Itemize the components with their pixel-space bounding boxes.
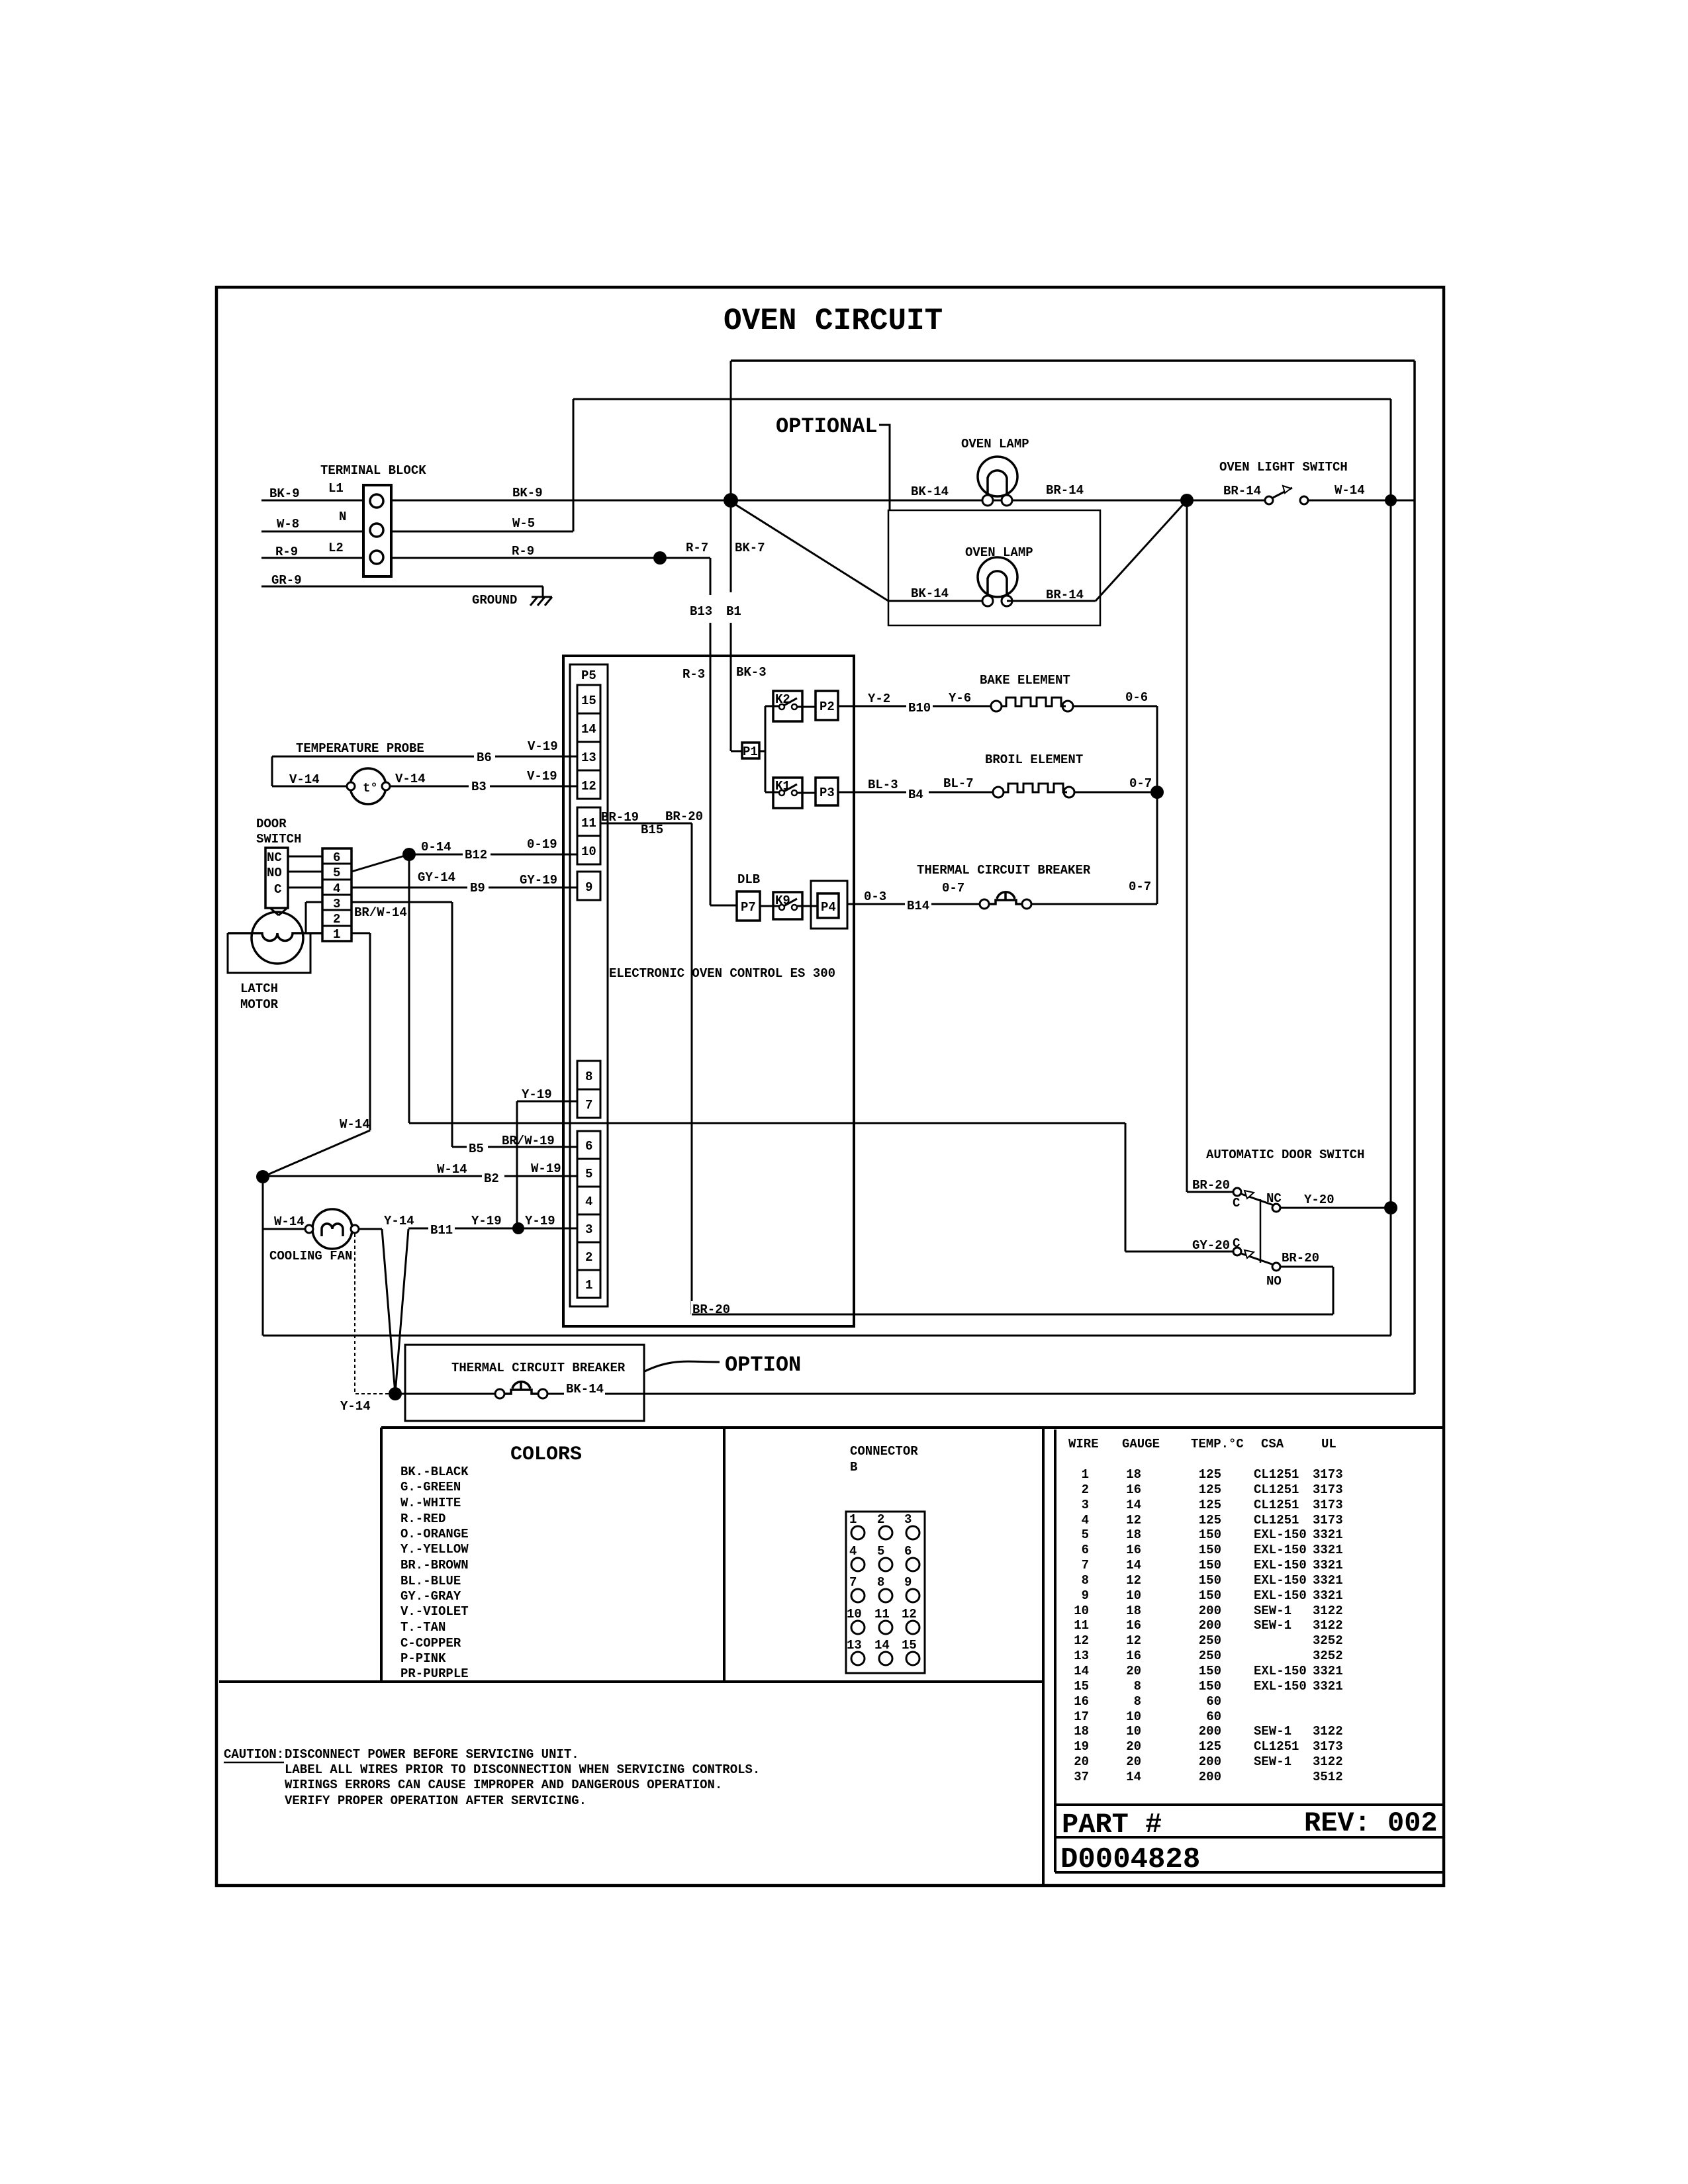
svg-text:DOOR: DOOR xyxy=(256,817,287,831)
svg-text:B10: B10 xyxy=(908,701,931,715)
svg-text:BR.-BROWN: BR.-BROWN xyxy=(400,1558,469,1572)
wire table row 16 xyxy=(1074,1694,1221,1709)
caution note xyxy=(224,1747,760,1808)
wire table row 11 xyxy=(1074,1618,1342,1633)
svg-text:R-3: R-3 xyxy=(682,667,705,682)
control module U3 ELECTRONIC OVEN CONTROL ES 300 box xyxy=(563,656,854,1326)
svg-text:18: 18 xyxy=(1126,1527,1141,1542)
svg-text:C: C xyxy=(1233,1196,1240,1210)
svg-text:NO: NO xyxy=(1266,1274,1282,1289)
svg-text:COLORS: COLORS xyxy=(510,1443,582,1466)
connector B pin 9 xyxy=(904,1575,919,1602)
connector P5 pin 3 xyxy=(577,1214,600,1242)
svg-text:200: 200 xyxy=(1199,1604,1221,1618)
svg-text:BK-9: BK-9 xyxy=(512,486,543,500)
connector P5 pin 7 xyxy=(577,1089,600,1118)
svg-text:BK-14: BK-14 xyxy=(911,484,949,499)
svg-text:LABEL ALL WIRES PRIOR TO DISCO: LABEL ALL WIRES PRIOR TO DISCONNECTION W… xyxy=(285,1762,760,1777)
svg-text:B5: B5 xyxy=(469,1142,484,1156)
connector B pin 8 xyxy=(877,1575,892,1602)
svg-text:3122: 3122 xyxy=(1313,1724,1343,1739)
svg-text:0-6: 0-6 xyxy=(1125,690,1148,705)
svg-text:B1: B1 xyxy=(726,604,741,619)
connector P5 pin 2 xyxy=(577,1242,600,1270)
svg-text:WIRINGS ERRORS CAN CAUSE IMPRO: WIRINGS ERRORS CAN CAUSE IMPROPER AND DA… xyxy=(285,1778,722,1792)
wire table row 8 xyxy=(1082,1573,1343,1588)
motor M1 LATCH MOTOR xyxy=(228,912,322,1012)
breaker CB2 box OPTION xyxy=(405,1345,644,1421)
svg-text:10: 10 xyxy=(1126,1588,1141,1603)
svg-text:ELECTRONIC OVEN CONTROL ES 300: ELECTRONIC OVEN CONTROL ES 300 xyxy=(609,966,835,981)
node BK junction xyxy=(724,493,738,508)
wire table row 15 xyxy=(1074,1679,1342,1694)
svg-text:GY.-GRAY: GY.-GRAY xyxy=(400,1589,461,1604)
svg-text:BK-14: BK-14 xyxy=(911,586,949,601)
svg-text:BAKE ELEMENT: BAKE ELEMENT xyxy=(980,673,1070,688)
svg-text:125: 125 xyxy=(1199,1739,1221,1754)
node Y-14 junction xyxy=(389,1387,402,1400)
svg-text:CSA: CSA xyxy=(1261,1437,1284,1451)
svg-text:OVEN CIRCUIT: OVEN CIRCUIT xyxy=(724,304,943,338)
wire B5 BR/W-19 to pin 6 xyxy=(452,1134,577,1156)
svg-text:L1: L1 xyxy=(328,481,344,496)
wire 0-7 breaker return xyxy=(1031,880,1157,904)
svg-text:9: 9 xyxy=(1082,1588,1089,1603)
svg-text:2: 2 xyxy=(1082,1482,1089,1497)
svg-text:TEMP.°C: TEMP.°C xyxy=(1191,1437,1244,1451)
svg-text:14: 14 xyxy=(874,1638,890,1653)
svg-text:12: 12 xyxy=(1074,1633,1089,1648)
svg-text:7: 7 xyxy=(849,1575,857,1590)
svg-text:3321: 3321 xyxy=(1313,1527,1343,1542)
svg-text:3321: 3321 xyxy=(1313,1543,1343,1557)
wire table row 2 xyxy=(1082,1482,1343,1497)
svg-text:OVEN LAMP: OVEN LAMP xyxy=(961,437,1029,451)
svg-text:C: C xyxy=(1233,1236,1240,1251)
connector P5 pin 4 xyxy=(577,1187,600,1214)
terminal block TB xyxy=(320,463,426,576)
node R splice xyxy=(653,551,667,565)
svg-text:16: 16 xyxy=(1126,1482,1141,1497)
svg-text:10: 10 xyxy=(1074,1604,1089,1618)
svg-text:17: 17 xyxy=(1074,1709,1089,1724)
svg-text:OVEN LIGHT SWITCH: OVEN LIGHT SWITCH xyxy=(1219,460,1348,475)
optional lamp enclosure box xyxy=(888,510,1100,625)
wire 0-7 from broil element xyxy=(1074,776,1157,792)
svg-text:C-COPPER: C-COPPER xyxy=(400,1636,461,1651)
connector B pin 4 xyxy=(849,1544,865,1571)
wire bottom return bus xyxy=(263,1335,1391,1337)
svg-text:REV: 002: REV: 002 xyxy=(1304,1807,1438,1839)
svg-text:BL.-BLUE: BL.-BLUE xyxy=(400,1574,461,1588)
ground xyxy=(472,593,552,608)
svg-text:CAUTION:: CAUTION: xyxy=(224,1747,284,1762)
svg-text:Y-19: Y-19 xyxy=(471,1214,502,1228)
wire diagonal to optional lamp xyxy=(731,502,888,601)
svg-text:SEW-1: SEW-1 xyxy=(1254,1618,1291,1633)
wire door switch NC to pin 6 xyxy=(288,856,322,858)
svg-text:Y-19: Y-19 xyxy=(525,1214,555,1228)
svg-text:18: 18 xyxy=(1074,1724,1089,1739)
wire table row 19 xyxy=(1074,1739,1342,1754)
svg-text:W.-WHITE: W.-WHITE xyxy=(400,1496,461,1510)
svg-text:4: 4 xyxy=(1082,1513,1089,1527)
wire BR-20 riser to auto door switch xyxy=(1187,500,1233,1193)
svg-text:2: 2 xyxy=(585,1250,592,1265)
connector P5 pin 15 xyxy=(577,685,600,713)
svg-text:6: 6 xyxy=(904,1544,912,1559)
wire BK-14 from breaker to hot box xyxy=(547,1382,1415,1396)
svg-text:O.-ORANGE: O.-ORANGE xyxy=(400,1527,469,1541)
connector B pin 3 xyxy=(904,1512,919,1539)
svg-text:1: 1 xyxy=(1082,1467,1089,1482)
wire GY-20 run from O-14 node xyxy=(409,854,1125,1251)
svg-text:150: 150 xyxy=(1199,1664,1221,1678)
connector B pin 7 xyxy=(849,1575,865,1602)
node Y-19 junction xyxy=(512,1222,524,1234)
svg-text:3173: 3173 xyxy=(1313,1498,1343,1512)
svg-text:Y-14: Y-14 xyxy=(384,1214,414,1228)
svg-text:N: N xyxy=(339,510,346,524)
svg-text:3321: 3321 xyxy=(1313,1588,1343,1603)
svg-text:B13: B13 xyxy=(690,604,712,619)
svg-text:9: 9 xyxy=(904,1575,912,1590)
svg-text:THERMAL CIRCUIT BREAKER: THERMAL CIRCUIT BREAKER xyxy=(917,863,1091,878)
connector P5 outline xyxy=(570,664,608,1306)
wire R-7 / B13 xyxy=(660,541,737,905)
door switch S2 xyxy=(256,817,301,915)
wire B11 Y-19 to pin 3 xyxy=(384,1214,577,1238)
svg-text:18: 18 xyxy=(1126,1467,1141,1482)
svg-text:EXL-150: EXL-150 xyxy=(1254,1588,1307,1603)
svg-text:60: 60 xyxy=(1206,1709,1221,1724)
svg-text:16: 16 xyxy=(1126,1618,1141,1633)
svg-text:60: 60 xyxy=(1206,1694,1221,1709)
svg-text:12: 12 xyxy=(1126,1573,1141,1588)
svg-text:Y-2: Y-2 xyxy=(868,692,890,706)
svg-text:P4: P4 xyxy=(821,900,836,915)
svg-text:5: 5 xyxy=(1082,1527,1089,1542)
svg-text:L2: L2 xyxy=(328,541,344,555)
connector B label xyxy=(850,1444,918,1475)
COLORS legend list xyxy=(400,1465,469,1681)
label OPTION with leader xyxy=(645,1353,801,1377)
svg-text:NC: NC xyxy=(1266,1191,1282,1206)
svg-text:P5: P5 xyxy=(581,668,596,683)
svg-text:16: 16 xyxy=(1126,1649,1141,1663)
wire door switch NO to pin 5 xyxy=(288,871,322,873)
svg-text:5: 5 xyxy=(585,1167,592,1181)
svg-text:EXL-150: EXL-150 xyxy=(1254,1573,1307,1588)
connector B pin 6 xyxy=(904,1544,919,1571)
wire optional lamp right xyxy=(1007,588,1096,602)
page border frame xyxy=(216,287,1444,1886)
heater R2 BROIL ELEMENT xyxy=(985,752,1083,797)
wire from latch pin 1 down to W-14 node xyxy=(263,933,370,1177)
svg-text:200: 200 xyxy=(1199,1724,1221,1739)
relay contact P4 xyxy=(811,881,847,929)
svg-text:EXL-150: EXL-150 xyxy=(1254,1664,1307,1678)
svg-text:SEW-1: SEW-1 xyxy=(1254,1604,1291,1618)
svg-text:P3: P3 xyxy=(820,786,835,800)
svg-text:0-7: 0-7 xyxy=(1129,880,1151,894)
switch S3 pole 1 C-NC xyxy=(1233,1188,1282,1212)
svg-text:3321: 3321 xyxy=(1313,1679,1343,1694)
svg-text:8: 8 xyxy=(1134,1694,1141,1709)
svg-text:5: 5 xyxy=(333,866,340,880)
svg-text:19: 19 xyxy=(1074,1739,1089,1754)
wire Y-19 to pin 7 xyxy=(517,1087,577,1228)
svg-text:8: 8 xyxy=(585,1069,592,1084)
svg-text:BK-9: BK-9 xyxy=(269,486,300,501)
svg-text:20: 20 xyxy=(1074,1754,1089,1769)
svg-text:10: 10 xyxy=(1126,1709,1141,1724)
node lamp return junction xyxy=(1180,494,1194,507)
svg-text:12: 12 xyxy=(1126,1633,1141,1648)
svg-text:Y-20: Y-20 xyxy=(1304,1193,1335,1207)
lamp U2 OVEN LAMP optional xyxy=(965,545,1033,606)
svg-text:CL1251: CL1251 xyxy=(1254,1498,1299,1512)
svg-text:CL1251: CL1251 xyxy=(1254,1482,1299,1497)
wire B15 BR-19/BR-20 from pin 11 xyxy=(600,809,733,1317)
wire latch motor to pin 3 xyxy=(306,902,322,933)
svg-text:14: 14 xyxy=(1126,1770,1141,1784)
svg-text:13: 13 xyxy=(1074,1649,1089,1663)
svg-text:0-7: 0-7 xyxy=(1129,776,1152,791)
connector P5 pin 11 xyxy=(577,807,600,836)
connector P5 pin 9 xyxy=(577,872,600,900)
svg-text:BL-7: BL-7 xyxy=(943,776,974,791)
wire element return riser xyxy=(1156,706,1158,904)
wire W-5 neutral riser and bus xyxy=(391,399,1391,1336)
relay contact P7 xyxy=(737,891,760,921)
connector B outline xyxy=(846,1512,925,1673)
svg-text:37: 37 xyxy=(1074,1770,1089,1784)
motor M2 COOLING FAN xyxy=(263,1209,359,1263)
svg-text:15: 15 xyxy=(1074,1679,1089,1694)
wire table row 12 xyxy=(1074,1633,1342,1648)
wire W-14 B2 W-19 to pin 5 xyxy=(263,1161,577,1186)
wire table row 37 xyxy=(1074,1770,1342,1784)
svg-text:DISCONNECT POWER BEFORE SERVIC: DISCONNECT POWER BEFORE SERVICING UNIT. xyxy=(285,1747,579,1762)
svg-text:9: 9 xyxy=(585,880,592,895)
wire latch motor loop to pin 1 xyxy=(228,933,310,973)
svg-text:SWITCH: SWITCH xyxy=(256,832,301,846)
svg-text:P7: P7 xyxy=(741,900,756,915)
svg-text:SEW-1: SEW-1 xyxy=(1254,1754,1291,1769)
svg-text:TEMPERATURE PROBE: TEMPERATURE PROBE xyxy=(296,741,424,756)
svg-text:GAUGE: GAUGE xyxy=(1122,1437,1160,1451)
svg-text:Y-14: Y-14 xyxy=(340,1399,371,1414)
wire GR-9 xyxy=(261,573,543,597)
svg-text:B4: B4 xyxy=(908,788,923,802)
svg-text:GY-19: GY-19 xyxy=(520,873,557,887)
wire Y-14 into breaker xyxy=(395,1393,495,1395)
svg-text:PART #: PART # xyxy=(1062,1809,1162,1841)
svg-text:CONNECTOR: CONNECTOR xyxy=(850,1444,918,1459)
wire table header xyxy=(1068,1437,1336,1451)
wire P1 to K2 K1 xyxy=(759,706,779,792)
wire GY-20 into pole 2 xyxy=(1125,1238,1233,1253)
svg-text:14: 14 xyxy=(1074,1664,1089,1678)
svg-text:3252: 3252 xyxy=(1313,1649,1343,1663)
svg-text:12: 12 xyxy=(902,1607,917,1621)
connector P5 pin 6 xyxy=(577,1131,600,1159)
relay K1 xyxy=(773,778,802,808)
svg-text:WIRE: WIRE xyxy=(1068,1437,1099,1451)
relay contact P1 xyxy=(742,743,759,759)
svg-text:8: 8 xyxy=(1082,1573,1089,1588)
svg-text:P1: P1 xyxy=(743,745,758,759)
svg-text:11: 11 xyxy=(581,816,596,831)
connector B pin 13 xyxy=(847,1638,865,1665)
lamp U1 OVEN LAMP xyxy=(961,437,1029,506)
wire table row 9 xyxy=(1082,1588,1343,1603)
svg-text:1: 1 xyxy=(333,927,340,942)
svg-text:20: 20 xyxy=(1126,1739,1141,1754)
svg-text:B: B xyxy=(850,1460,857,1475)
svg-text:3: 3 xyxy=(333,897,340,911)
svg-text:LATCH: LATCH xyxy=(240,981,278,996)
svg-text:W-14: W-14 xyxy=(437,1162,467,1177)
svg-text:BL-3: BL-3 xyxy=(868,778,898,792)
svg-text:BR-20: BR-20 xyxy=(1282,1251,1319,1265)
svg-text:MOTOR: MOTOR xyxy=(240,997,279,1012)
switch S3 mechanical link xyxy=(1260,1199,1262,1263)
breaker CB2 symbol xyxy=(495,1382,547,1398)
svg-text:OPTION: OPTION xyxy=(725,1353,801,1377)
svg-text:14: 14 xyxy=(581,722,596,737)
svg-text:B3: B3 xyxy=(471,780,487,794)
svg-text:125: 125 xyxy=(1199,1498,1221,1512)
svg-text:DLB: DLB xyxy=(737,872,760,887)
svg-text:BK.-BLACK: BK.-BLACK xyxy=(400,1465,469,1479)
svg-text:125: 125 xyxy=(1199,1467,1221,1482)
connector B pin 2 xyxy=(877,1512,892,1539)
svg-text:1: 1 xyxy=(585,1278,592,1293)
svg-text:Y.-YELLOW: Y.-YELLOW xyxy=(400,1542,469,1557)
svg-text:10: 10 xyxy=(847,1607,862,1621)
svg-text:UL: UL xyxy=(1321,1437,1336,1451)
svg-text:G.-GREEN: G.-GREEN xyxy=(400,1480,461,1494)
connector P5 pin 10 xyxy=(577,836,600,864)
wire table row 4 xyxy=(1082,1513,1343,1527)
svg-text:THERMAL CIRCUIT BREAKER: THERMAL CIRCUIT BREAKER xyxy=(451,1361,626,1375)
connector P5 pin 12 xyxy=(577,770,600,799)
wire fan terminal dashed link xyxy=(355,1234,389,1394)
svg-text:W-14: W-14 xyxy=(274,1214,305,1229)
svg-text:P2: P2 xyxy=(820,700,835,714)
node W-14 junction xyxy=(256,1170,269,1183)
svg-text:0-7: 0-7 xyxy=(942,881,964,895)
svg-text:3122: 3122 xyxy=(1313,1604,1343,1618)
svg-text:B12: B12 xyxy=(465,848,487,862)
svg-text:4: 4 xyxy=(333,882,340,896)
svg-text:250: 250 xyxy=(1199,1633,1221,1648)
node broil junction xyxy=(1150,786,1164,799)
relay contact P2 xyxy=(816,691,838,720)
svg-text:V-19: V-19 xyxy=(527,769,557,784)
svg-text:P-PINK: P-PINK xyxy=(400,1651,446,1666)
node O-14 junction xyxy=(402,848,416,861)
wire table row 7 xyxy=(1082,1558,1343,1572)
connector B pin 14 xyxy=(874,1638,892,1665)
svg-text:16: 16 xyxy=(1126,1543,1141,1557)
wire optional lamp left xyxy=(888,586,987,601)
svg-text:COOLING FAN: COOLING FAN xyxy=(269,1249,352,1263)
wire hot bus top edge xyxy=(731,359,1415,362)
svg-text:3321: 3321 xyxy=(1313,1573,1343,1588)
svg-text:0-19: 0-19 xyxy=(527,837,557,852)
svg-text:BR-14: BR-14 xyxy=(1046,483,1084,498)
svg-text:15: 15 xyxy=(902,1638,917,1653)
svg-text:BR-19: BR-19 xyxy=(601,810,639,825)
svg-text:V-19: V-19 xyxy=(528,739,558,754)
svg-text:3321: 3321 xyxy=(1313,1664,1343,1678)
svg-text:NC: NC xyxy=(267,850,282,865)
wire hot bus right edge xyxy=(1413,361,1416,1394)
svg-text:200: 200 xyxy=(1199,1618,1221,1633)
svg-text:20: 20 xyxy=(1126,1754,1141,1769)
wire Y-14 up diagonal to B11 xyxy=(395,1229,408,1394)
wire K1 to P3 xyxy=(797,792,816,794)
svg-text:10: 10 xyxy=(1126,1724,1141,1739)
svg-text:2: 2 xyxy=(333,912,340,927)
svg-text:150: 150 xyxy=(1199,1573,1221,1588)
svg-text:3: 3 xyxy=(1082,1498,1089,1512)
connector B pin 12 xyxy=(902,1607,919,1634)
svg-text:3173: 3173 xyxy=(1313,1739,1343,1754)
wire table row 14 xyxy=(1074,1664,1342,1678)
svg-text:BK-3: BK-3 xyxy=(736,665,767,680)
wire fan to Y-14 xyxy=(359,1228,382,1230)
svg-text:B6: B6 xyxy=(477,751,492,765)
svg-text:8: 8 xyxy=(1134,1679,1141,1694)
svg-text:0-3: 0-3 xyxy=(864,889,886,904)
svg-text:EXL-150: EXL-150 xyxy=(1254,1527,1307,1542)
wire BR-20 from NO to pin 11 run xyxy=(692,1251,1333,1314)
svg-text:CL1251: CL1251 xyxy=(1254,1467,1299,1482)
svg-text:3173: 3173 xyxy=(1313,1482,1343,1497)
wire table frame xyxy=(1055,1430,1444,1872)
wire K2 to P2 xyxy=(797,706,816,708)
connector P5 pin 13 xyxy=(577,742,600,770)
svg-text:BR-14: BR-14 xyxy=(1223,484,1261,498)
wire lamp bus to light switch xyxy=(731,483,1415,500)
svg-text:150: 150 xyxy=(1199,1558,1221,1572)
svg-text:B2: B2 xyxy=(484,1171,499,1186)
svg-text:B11: B11 xyxy=(430,1223,453,1238)
wire K9 to P4 xyxy=(797,905,818,907)
svg-text:W-19: W-19 xyxy=(531,1161,561,1176)
svg-text:150: 150 xyxy=(1199,1527,1221,1542)
svg-text:3: 3 xyxy=(904,1512,912,1527)
svg-text:14: 14 xyxy=(1126,1498,1141,1512)
wire Y-14 down diagonal xyxy=(382,1229,395,1394)
svg-text:7: 7 xyxy=(1082,1558,1089,1572)
wire table row 17 xyxy=(1074,1709,1221,1724)
svg-text:2: 2 xyxy=(877,1512,884,1527)
node light switch output xyxy=(1385,494,1397,506)
svg-text:NO: NO xyxy=(267,866,282,880)
svg-text:GROUND: GROUND xyxy=(472,593,517,608)
svg-text:t°: t° xyxy=(363,781,378,796)
wire BL-3 B4 BL-7 to broil element xyxy=(838,776,999,802)
svg-text:150: 150 xyxy=(1199,1679,1221,1694)
svg-text:SEW-1: SEW-1 xyxy=(1254,1724,1291,1739)
svg-text:12: 12 xyxy=(1126,1513,1141,1527)
wire 0-3 B14 0-7 to thermal breaker xyxy=(847,881,980,913)
